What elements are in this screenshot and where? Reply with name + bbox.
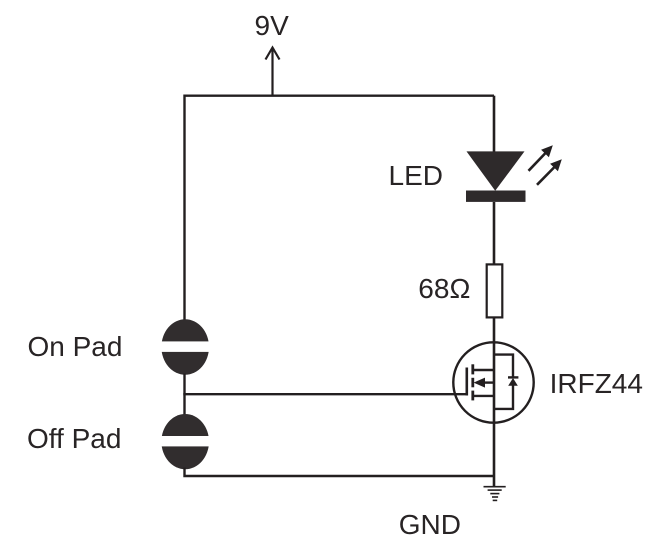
wire: MOSFET source down to ground [493,422,496,487]
LED light arrow lower [537,159,562,185]
wire: top rail from left rail to right rail [185,94,495,96]
touch pad: Off Pad disc [161,414,209,469]
svg-text:68Ω: 68Ω [418,273,470,304]
wire: left rail vertical down to On Pad [183,95,185,322]
transistor Q1: channel top segment [471,364,474,374]
svg-text:On Pad: On Pad [28,331,123,362]
svg-text:GND: GND [399,509,461,540]
ground symbol [484,487,506,501]
touch pad: Off Pad gap stripe [158,436,213,446]
power supply 9V arrow [266,48,280,96]
LED D1: triangle anode [467,151,525,190]
LED light arrow upper [529,145,553,171]
svg-text:Off Pad: Off Pad [27,423,121,454]
transistor Q1: channel bottom segment [471,391,474,401]
LED D1: cathode bar [466,191,526,202]
touch pad: On Pad gap stripe [158,341,213,352]
transistor Q1 IRFZ44: body circle [453,342,533,422]
wire: gate lead from pads junction into MOSFET [183,393,467,395]
wire: resistor bottom to MOSFET drain [493,317,496,344]
transistor Q1: body diode bottom branch [494,385,513,409]
wire: drain vertical through MOSFET body [493,343,496,423]
transistor Q1: gate bar [465,368,468,396]
wire: Off Pad bottom to bottom rail corner [185,468,495,477]
touch pad: On Pad disc [161,319,209,375]
transistor Q1: source connection horizontal [473,395,495,397]
transistor Q1: body diode triangle [508,378,518,386]
svg-text:9V: 9V [255,10,290,41]
transistor Q1: channel middle segment [471,378,474,388]
transistor Q1: substrate arrowhead pointing left [474,378,485,388]
transistor Q1: drain connection horizontal [473,369,495,371]
wire: LED cathode to resistor top [493,202,496,264]
svg-text:IRFZ44: IRFZ44 [550,368,643,399]
resistor R1 68 ohm body [487,264,503,317]
wire: right rail from top rail down to LED anode [493,96,496,153]
wire: between On Pad and Off Pad with gate branch junction [183,374,185,416]
transistor Q1: substrate arrow line [480,381,495,383]
transistor Q1: body diode top branch [494,355,513,377]
transistor Q1: body diode cathode bar [508,376,518,378]
svg-text:LED: LED [389,160,443,191]
